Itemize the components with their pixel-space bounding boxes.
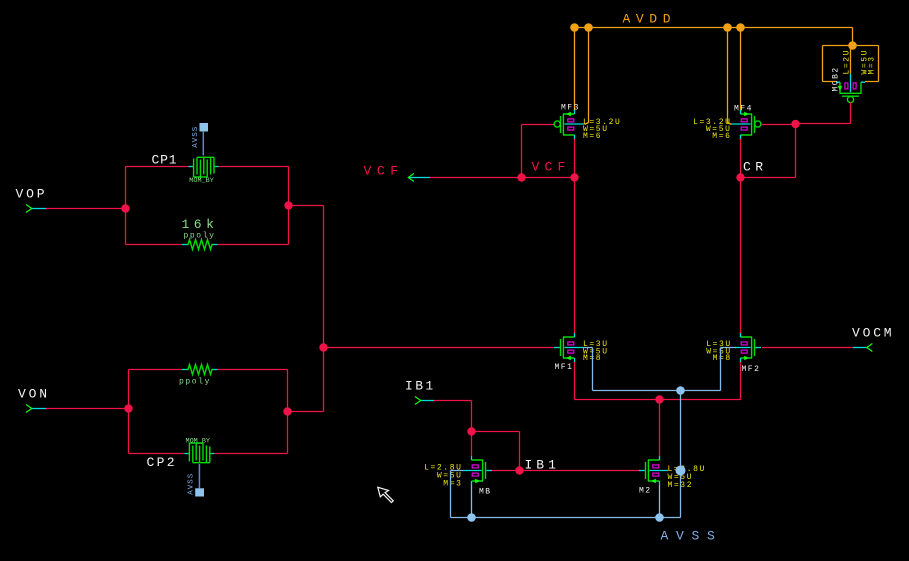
svg-text:M2: M2: [639, 487, 652, 496]
svg-text:CR: CR: [743, 159, 768, 174]
wire MF4 drain down: [740, 139, 742, 178]
ground AVSS symbol at CP1: [200, 123, 209, 132]
wire VCF down to MF1 drain: [574, 178, 576, 334]
node M2 source junction: [655, 513, 664, 522]
node CR gate junction: [791, 120, 799, 128]
wire top loop to center bus: [289, 205, 324, 207]
wire tail to M2 drain: [659, 400, 661, 457]
wire AVDD to MF3 bulk: [585, 28, 589, 125]
transistor MCB2 (PMOS rotated): [836, 74, 865, 103]
svg-text:CP2: CP2: [147, 455, 177, 470]
svg-text:M=8: M=8: [713, 354, 732, 363]
wire center to MF1 gate: [324, 347, 555, 349]
capacitor CP1: [152, 152, 219, 185]
node IB1 junction 1: [467, 427, 475, 435]
node MB source junction: [467, 513, 476, 522]
wire bottom loop top side left: [129, 369, 183, 371]
wire MCB2 loop from AVDD: [823, 46, 879, 82]
node AVDD tap 4: [736, 23, 745, 32]
wire AVDD to MF3 source: [574, 28, 576, 111]
svg-text:IB1: IB1: [405, 378, 436, 393]
svg-text:MF2: MF2: [742, 365, 761, 374]
node AVDD tap 2: [584, 23, 593, 32]
node M2 bulk junction: [676, 466, 686, 476]
svg-text:M=6: M=6: [712, 132, 731, 141]
node IB1 gate junction: [515, 466, 523, 474]
wire IB1 jog: [472, 432, 520, 471]
wire AVDD to MF4 source: [740, 28, 742, 111]
pin VOCM: [852, 325, 894, 351]
wire bottom loop bottom side right: [214, 453, 287, 455]
node top loop output junction: [284, 201, 292, 209]
svg-text:VOCM: VOCM: [852, 325, 894, 340]
node AVDD MCB2 junction: [848, 41, 857, 50]
svg-text:MF3: MF3: [561, 104, 580, 113]
pin VON: [18, 387, 50, 413]
svg-text:VON: VON: [18, 387, 50, 402]
pin VCF: [364, 164, 431, 182]
pin IB1: [405, 378, 436, 404]
resistor R2: [179, 365, 218, 387]
transistor MF3 (PMOS): [554, 110, 584, 139]
node VON junction: [124, 404, 132, 412]
svg-text:16k: 16k: [182, 217, 219, 232]
wire junction to MB gate: [492, 470, 520, 472]
svg-text:ppoly: ppoly: [184, 231, 216, 240]
svg-text:M=3: M=3: [443, 479, 462, 488]
svg-text:MCB2: MCB2: [832, 66, 841, 91]
svg-text:MOM_BY: MOM_BY: [186, 437, 210, 445]
svg-text:AVSS: AVSS: [188, 473, 196, 495]
label M2 parameters: [668, 465, 706, 490]
svg-text:ppoly: ppoly: [179, 378, 211, 387]
wire VON to CP2 loop: [46, 408, 129, 410]
cursor: [378, 487, 393, 502]
svg-text:AVSS: AVSS: [192, 126, 200, 148]
transistor MF1 (NMOS): [554, 333, 584, 362]
wire MB source to rail: [471, 485, 473, 518]
node bottom loop output junction: [283, 407, 291, 415]
node VCF junction 2: [570, 173, 578, 181]
svg-text:AVSS: AVSS: [661, 528, 723, 543]
node tail junction: [655, 395, 663, 403]
svg-text:MOM_BY: MOM_BY: [189, 177, 213, 185]
svg-text:VOP: VOP: [16, 187, 48, 202]
wire MF1 source down: [574, 362, 576, 400]
transistor M2 (NMOS): [639, 456, 668, 485]
wire M2 source to rail: [659, 485, 661, 518]
wire bottom loop bottom side left: [129, 453, 185, 455]
wire tail rail: [575, 399, 741, 401]
svg-text:M=3: M=3: [868, 55, 877, 74]
svg-text:MF4: MF4: [734, 105, 753, 114]
svg-text:M=32: M=32: [668, 481, 694, 490]
transistor MB (NMOS mirrored): [463, 456, 492, 485]
wire CP2 AVSS stub: [198, 464, 200, 488]
svg-text:M=6: M=6: [583, 132, 602, 141]
label MF3 parameters: [583, 118, 621, 141]
wire IB1 pin: [434, 401, 472, 432]
power AVDD rail: [575, 28, 853, 46]
wire IB1 to MB drain: [471, 432, 473, 457]
wire top loop top side right: [219, 166, 289, 168]
transistor MF4 (PMOS mirrored): [731, 110, 761, 139]
node VOP junction: [121, 204, 129, 212]
wire top loop bottom side left: [126, 244, 183, 246]
wire MF1 bulk net: [584, 348, 737, 391]
svg-text:MB: MB: [479, 488, 492, 497]
resistor R1 16k: [182, 217, 219, 250]
wire CR diode connection: [741, 124, 796, 178]
label MF2 parameters: [706, 340, 732, 363]
node VCF junction 1: [517, 173, 525, 181]
wire MB bulk riser: [451, 471, 464, 518]
wire MF2 source down: [740, 362, 742, 400]
node CR junction: [736, 173, 744, 181]
svg-text:VCF: VCF: [532, 159, 571, 174]
wire AVDD to MF4 bulk: [728, 28, 732, 125]
label MF1 parameters: [583, 340, 609, 363]
wire MCB2 gate to CR: [796, 102, 851, 123]
svg-text:MF1: MF1: [555, 363, 574, 372]
label MCB2 parameters rotated: [843, 49, 877, 75]
wire bulk vertical to AVSS: [680, 391, 682, 518]
wire junction to M2 gate: [520, 470, 640, 472]
transistor MF2 (NMOS mirrored): [735, 333, 761, 362]
svg-text:VCF: VCF: [364, 164, 404, 179]
node center junction: [319, 343, 327, 351]
svg-text:CP1: CP1: [152, 152, 178, 167]
wire bottom loop to center bus: [288, 411, 324, 413]
wire CP1 AVSS stub: [202, 132, 204, 156]
label MB parameters: [424, 463, 462, 488]
wire bottom loop top side right: [218, 369, 288, 371]
wire VOP to CP1 loop: [46, 208, 126, 210]
wire VCF between junctions: [522, 177, 575, 179]
wire CR down to MF2 drain: [740, 178, 742, 334]
wire AVSS rail: [451, 517, 681, 519]
node AVDD tap 3: [723, 23, 732, 32]
wire top loop bottom side right: [218, 244, 289, 246]
pin VOP: [16, 187, 48, 213]
ground AVSS symbol at CP2: [195, 488, 204, 496]
wire VCF pin to junction: [430, 177, 522, 179]
wire bottom loop left vertical: [128, 370, 130, 454]
wire bottom loop right vertical: [287, 370, 289, 454]
node AVDD tap 1: [570, 23, 579, 32]
node bulk junction: [676, 386, 685, 395]
wire top loop left vertical: [125, 167, 127, 245]
wire top loop right vertical: [288, 167, 290, 245]
wire VCF up to MF3 gate: [522, 125, 555, 178]
wire center vertical bus: [323, 206, 325, 412]
wire MF3 source to VCF: [574, 139, 576, 178]
wire top loop top side left: [126, 166, 189, 168]
wire MF2 gate to VOCM: [762, 347, 853, 349]
capacitor CP2: [147, 437, 215, 470]
wire MF4 gate to CR node: [761, 124, 796, 126]
label MF4 parameters: [693, 118, 731, 141]
svg-text:AVDD: AVDD: [623, 11, 677, 26]
